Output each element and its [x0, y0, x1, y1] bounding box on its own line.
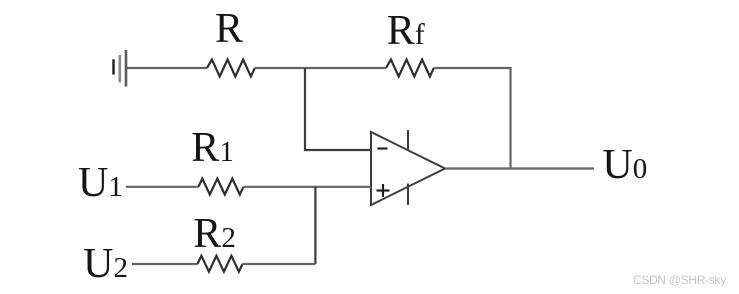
- wire R2 to node B bottom: [243, 263, 316, 265]
- wire node B to non-inverting input: [315, 186, 371, 188]
- op-amp U1: [371, 130, 445, 205]
- wire R to node A: [255, 67, 305, 69]
- label U2: [83, 243, 128, 285]
- wire node A to Rf: [305, 67, 386, 69]
- wire U1 to R1: [126, 186, 198, 188]
- label R2: [193, 213, 236, 255]
- resistor R2: [198, 256, 243, 272]
- ground: [114, 50, 127, 87]
- wire U2 to R2: [132, 263, 198, 265]
- wire R1 to node B: [243, 186, 315, 188]
- wire Rf to feedback corner down to output: [434, 68, 511, 169]
- label Rf: [387, 10, 425, 52]
- watermark: [633, 273, 726, 287]
- label U1: [78, 162, 123, 204]
- label R1: [191, 127, 234, 169]
- wire node A down to inverting input: [305, 68, 371, 150]
- resistor Rf: [386, 60, 434, 77]
- label R: [215, 8, 243, 50]
- resistor R: [207, 60, 255, 77]
- label U0: [602, 144, 647, 186]
- wire node B down to R2 row: [314, 187, 316, 264]
- output wire: [445, 167, 594, 169]
- resistor R1: [198, 179, 243, 195]
- wire ground to R: [126, 67, 207, 69]
